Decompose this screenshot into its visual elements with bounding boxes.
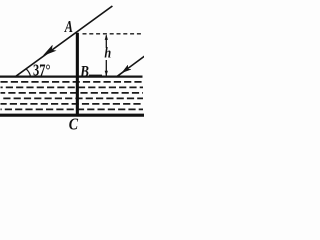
- wire: second ray at right: [117, 56, 146, 77]
- svg-text:B: B: [79, 63, 89, 80]
- arrowhead on incident ray: [44, 45, 56, 55]
- svg-text:37°: 37°: [33, 61, 51, 80]
- arrowhead on second ray: [122, 65, 131, 72]
- pole AC: [76, 33, 79, 117]
- water surface line: [0, 75, 143, 77]
- angle arc 37 degrees: [26, 69, 30, 77]
- svg-text:A: A: [64, 17, 73, 36]
- thicker smudge of surface line right of B: [89, 75, 102, 78]
- svg-text:C: C: [69, 115, 79, 131]
- svg-text:h: h: [104, 46, 111, 62]
- h dimension upper arrow: [105, 34, 108, 47]
- water dashed hatch row 4: [1, 97, 144, 99]
- water dashed hatch row 5: [1, 103, 144, 105]
- h dimension lower arrow: [105, 60, 108, 76]
- water dashed hatch row 3: [1, 92, 144, 94]
- water dashed hatch row 2: [1, 86, 144, 88]
- dashed level line from A: [83, 33, 144, 35]
- water dashed hatch row 6: [1, 108, 144, 110]
- bottom line: [0, 114, 144, 117]
- wire: incident ray through A: [15, 6, 113, 77]
- background: [0, 0, 144, 131]
- water dashed hatch row 1: [1, 81, 144, 83]
